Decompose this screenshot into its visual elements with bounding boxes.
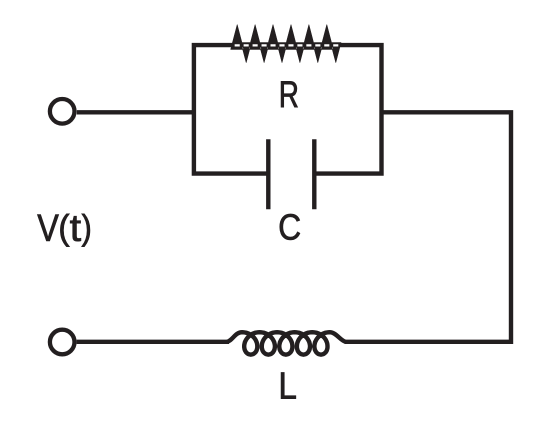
terminal T2 (bottom-left open circle) (50, 330, 75, 355)
label L (281, 373, 296, 399)
resistor R zigzag (231, 25, 341, 63)
terminal T1 (top-left open circle) (50, 99, 75, 124)
capacitor C right plate (312, 139, 316, 209)
label R (281, 81, 298, 107)
wire inductor to bottom-left terminal (77, 340, 229, 344)
wire top-left terminal to node A (77, 110, 196, 114)
wire right branch of parallel box (top to capacitor lead) (314, 45, 381, 174)
label C (280, 214, 300, 240)
wire node B to right rail and down to inductor (345, 112, 512, 341)
wire left branch of parallel box (node A down to capacitor lead) (194, 45, 268, 174)
white casing dashes over resistor wire (235, 44, 339, 46)
capacitor C left plate (266, 139, 270, 209)
label V(t) source voltage (37, 215, 58, 241)
inductor L coil (227, 332, 346, 354)
wire under resistor (top rail) (232, 43, 337, 47)
